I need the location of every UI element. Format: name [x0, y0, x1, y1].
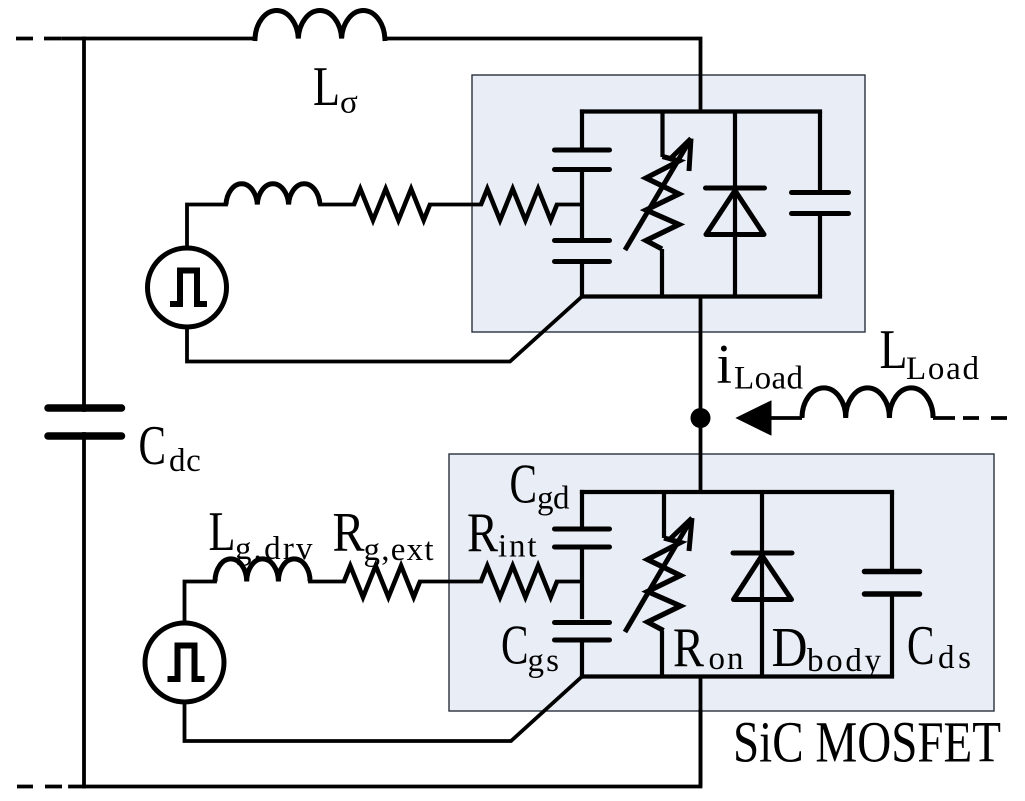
svg-text:g,ext: g,ext [364, 532, 434, 568]
wire DC- dashed stub bottom-left [17, 785, 62, 789]
wire top inner drain rail [582, 109, 820, 113]
resistor gate internal top [481, 189, 557, 220]
svg-text:gd: gd [537, 481, 570, 517]
wire L_sigma to drain corner [385, 39, 701, 112]
svg-text:i: i [717, 334, 733, 396]
wire DC+ rail top [63, 37, 255, 41]
svg-text:g,drv: g,drv [235, 531, 313, 567]
svg-text:R: R [673, 617, 705, 679]
variable resistor top channel [625, 112, 691, 297]
capacitor C_dc [48, 408, 122, 436]
svg-text:dc: dc [169, 443, 201, 479]
pulse source V_gl circle [145, 623, 224, 702]
pulse source V_gh circle [148, 248, 227, 327]
pulse source V_gh glyph [170, 271, 207, 305]
box high-side MOSFET model [472, 75, 865, 332]
inductor gate-drive top [226, 184, 320, 205]
top MOSFET inner network [582, 112, 820, 297]
svg-text:L: L [209, 501, 236, 563]
wire DC- rail bottom [70, 711, 701, 787]
inductor L_sigma [255, 11, 385, 39]
inductor L_g,drv [215, 559, 310, 582]
wire between bottom R_g,ext and R_int [420, 580, 481, 584]
wire low-side source to DC- [699, 677, 703, 787]
capacitor top C_ds (unlabeled) [792, 112, 849, 297]
wire between bottom gate inductor and resistor [310, 580, 344, 584]
wire gate-drive top return [187, 297, 582, 362]
wire top gate branch segments [580, 112, 584, 148]
capacitor C_gd [555, 529, 610, 547]
arrow i_Load [737, 401, 803, 435]
box low-side SiC MOSFET model [449, 454, 994, 711]
svg-text:C: C [501, 614, 529, 676]
svg-text:R: R [467, 502, 499, 564]
svg-text:Load: Load [906, 351, 980, 387]
wire bottom inner drain rail [582, 490, 892, 494]
wire DC+ dashed stub top-left [16, 37, 61, 41]
svg-text:σ: σ [340, 85, 358, 121]
wire load dashed stub right [933, 416, 1007, 420]
svg-text:L: L [880, 319, 908, 381]
svg-text:R: R [333, 502, 366, 564]
wire gate-drive bottom return [185, 677, 583, 742]
svg-text:int: int [498, 529, 537, 565]
pulse source V_gl glyph [168, 646, 205, 680]
resistor R_g,ext [344, 566, 420, 597]
variable resistor R_on channel [625, 492, 692, 677]
wire bottom R_int to gate node [557, 580, 582, 584]
wire switch node vertical [699, 297, 703, 493]
capacitor C_ds [865, 492, 920, 677]
resistor gate-drive top external [354, 189, 430, 220]
resistor R_int [481, 566, 557, 597]
diode D_body [733, 492, 792, 677]
wire gate-drive bottom: source to inductor [185, 582, 216, 623]
wire top R_int to gate node [557, 203, 582, 207]
svg-text:D: D [772, 617, 808, 679]
bottom MOSFET inner network [582, 492, 892, 677]
svg-text:Load: Load [734, 361, 804, 397]
wire top inner source rail [582, 294, 820, 298]
wire bottom inner source rail [582, 674, 892, 678]
inductor L_Load [802, 388, 933, 418]
wire left DC bus vertical lower [82, 434, 86, 787]
capacitor top C_gd (unlabeled) [555, 150, 610, 170]
arrow of variable resistor top [625, 139, 691, 251]
node switch-node junction dot [691, 408, 711, 428]
svg-text:C: C [510, 454, 538, 516]
wire between top gate inductor and resistor [320, 203, 354, 207]
arrow of variable resistor R_on [625, 518, 692, 632]
svg-text:L: L [313, 56, 340, 118]
wire bottom gate branch segments [580, 492, 584, 526]
capacitor top C_gs (unlabeled) [555, 241, 610, 262]
wire gate-drive top: source to inductor [187, 205, 226, 248]
svg-text:C: C [907, 615, 935, 677]
diode top body (unlabeled) [706, 112, 765, 297]
wire left DC bus vertical upper [82, 39, 86, 411]
svg-text:SiC MOSFET: SiC MOSFET [733, 710, 1001, 775]
svg-text:gs: gs [528, 643, 560, 679]
svg-text:C: C [139, 415, 167, 477]
capacitor C_gs [555, 623, 610, 641]
wire between top R_g,ext and R_int [430, 203, 481, 207]
